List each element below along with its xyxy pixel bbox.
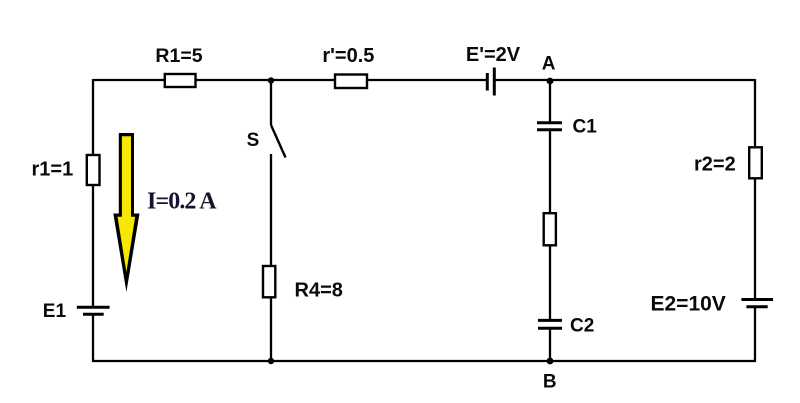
- svg-text:S: S: [247, 130, 260, 151]
- resistor r1: [87, 155, 100, 185]
- wire left (top segment to E1): [92, 79, 94, 307]
- svg-text:E'=2V: E'=2V: [466, 44, 521, 66]
- node B junction: [547, 358, 554, 365]
- svg-text:R1=5: R1=5: [155, 45, 202, 67]
- current arrow I (yellow): [113, 133, 139, 292]
- node junction top-middle: [268, 77, 274, 83]
- node A junction: [547, 78, 554, 85]
- svg-text:E1: E1: [43, 301, 67, 322]
- capacitor C1: [537, 121, 562, 124]
- svg-text:r'=0.5: r'=0.5: [322, 45, 374, 67]
- resistor R1: [165, 74, 196, 87]
- svg-text:C2: C2: [570, 316, 594, 337]
- wire top (left segment to battery E'): [93, 79, 487, 81]
- wire middle branch above switch: [270, 80, 272, 125]
- battery E2: [741, 298, 773, 301]
- svg-text:A: A: [542, 54, 556, 75]
- wire bottom: [92, 360, 756, 362]
- wire top (right segment from battery E'): [494, 79, 755, 81]
- svg-text:E2=10V: E2=10V: [651, 293, 726, 316]
- resistor r2: [749, 147, 762, 178]
- svg-text:I=0.2 A: I=0.2 A: [147, 189, 217, 215]
- wire right (top segment to E2): [754, 79, 756, 300]
- battery E1: [77, 306, 110, 309]
- resistor r': [335, 75, 367, 89]
- svg-text:R4=8: R4=8: [295, 279, 343, 301]
- resistor middle (between C1 and C2): [544, 213, 556, 245]
- wire A-branch below C2: [549, 328, 551, 361]
- wire A-branch C1 to C2: [549, 130, 551, 321]
- svg-text:r2=2: r2=2: [694, 153, 736, 175]
- node junction bottom-middle: [268, 358, 274, 364]
- battery E': [486, 73, 489, 91]
- svg-text:B: B: [543, 372, 557, 393]
- switch S blade: [271, 125, 286, 158]
- wire right (below E2): [754, 307, 756, 361]
- capacitor C2: [538, 319, 562, 322]
- svg-text:r1=1: r1=1: [32, 159, 74, 181]
- wire A-branch above C1: [549, 80, 551, 123]
- resistor R4: [263, 266, 275, 297]
- wire left (below E1): [92, 314, 94, 361]
- wire middle branch below switch: [270, 154, 272, 361]
- svg-text:C1: C1: [573, 117, 598, 138]
